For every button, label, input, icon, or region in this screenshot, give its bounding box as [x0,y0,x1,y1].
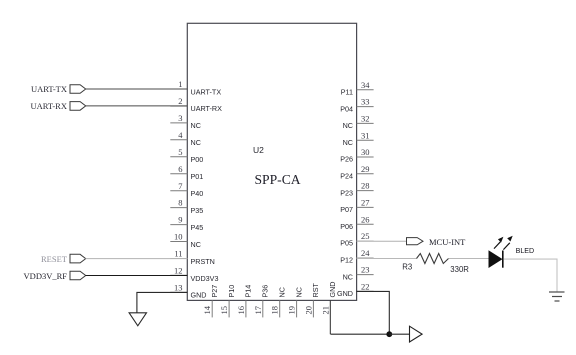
svg-text:P45: P45 [191,223,204,232]
svg-text:NC: NC [343,138,353,147]
pin 11 (PRSTN) [170,249,215,266]
svg-text:34: 34 [361,80,370,90]
pin 10 (NC) [170,232,201,249]
svg-text:P06: P06 [340,222,353,231]
svg-text:UART-TX: UART-TX [31,84,67,94]
svg-text:RESET: RESET [41,254,68,264]
svg-text:28: 28 [361,181,370,191]
svg-text:27: 27 [361,198,370,208]
svg-text:P07: P07 [340,205,353,214]
pin 20 (RST) [303,283,320,318]
svg-text:R3: R3 [402,262,412,271]
svg-text:P10: P10 [227,285,236,298]
pin 23 (NC) [343,265,374,282]
pin 8 (P35) [170,198,203,215]
svg-text:13: 13 [174,283,183,293]
pin 4 (NC) [170,130,201,147]
pin 28 (P23) [340,181,373,198]
pin 13 (GND) [170,283,206,300]
pin 26 (P06) [340,214,373,231]
resistor R3 [417,254,449,264]
wire GND net (pin 13 to ground) [137,292,187,312]
svg-text:7: 7 [178,181,182,191]
port MCU-INT [407,237,467,247]
svg-text:23: 23 [361,265,370,275]
svg-text:1: 1 [178,79,182,89]
svg-text:26: 26 [361,214,370,224]
svg-text:UART-RX: UART-RX [191,104,223,113]
LED emission arrow 1 [494,237,503,249]
svg-text:P27: P27 [210,285,219,298]
wire UART-TX net [86,88,188,90]
svg-text:GND: GND [328,282,337,298]
pin 17 (P36) [253,285,270,318]
svg-text:P04: P04 [340,104,353,113]
svg-text:P12: P12 [340,256,353,265]
LED cathode bar [502,251,504,268]
svg-text:18: 18 [270,306,280,315]
pin 14 (P27) [202,285,219,318]
pin 15 (P10) [219,285,236,318]
svg-text:VDD3V3: VDD3V3 [191,274,219,283]
svg-text:29: 29 [361,164,370,174]
pin 1 (UART-TX) [170,79,221,96]
svg-text:5: 5 [178,147,182,157]
pin 2 (UART-RX) [170,96,222,113]
svg-text:NC: NC [191,138,201,147]
svg-text:16: 16 [236,306,246,315]
pin 30 (P26) [340,147,373,164]
pin 16 (P14) [236,285,253,318]
svg-text:VDD3V_RF: VDD3V_RF [24,271,68,281]
svg-text:P00: P00 [191,155,204,164]
ground (earth symbol) [549,292,565,301]
pin 22 (GND) [337,282,374,299]
svg-text:17: 17 [253,306,263,315]
svg-text:P14: P14 [244,285,253,298]
svg-text:15: 15 [219,306,229,315]
svg-text:10: 10 [174,232,183,242]
svg-text:P40: P40 [191,189,204,198]
wire LED cathode to ground [504,259,557,292]
svg-text:24: 24 [361,248,370,258]
pin 31 (NC) [343,130,374,147]
svg-text:9: 9 [178,215,182,225]
port VDD3V_RF [24,271,86,281]
pin 6 (P01) [170,164,203,181]
pin 21 (GND) [320,282,337,335]
pin 3 (NC) [170,113,201,130]
svg-text:6: 6 [178,164,182,174]
svg-text:P11: P11 [341,88,353,97]
pin 7 (P40) [170,181,203,198]
svg-text:UART-TX: UART-TX [191,87,222,96]
IC U2 body (SPP-CA module outline) [187,23,356,300]
svg-text:32: 32 [361,114,370,124]
svg-text:8: 8 [178,198,182,208]
svg-text:MCU-INT: MCU-INT [429,237,466,247]
svg-text:NC: NC [191,121,201,130]
wire VDD3V_RF net [86,275,188,277]
pin 25 (P05) [340,231,373,248]
pin 33 (P04) [340,97,373,114]
wire UART-RX net [86,105,188,107]
svg-text:P35: P35 [191,206,204,215]
svg-text:31: 31 [361,130,370,140]
wire junction to off-page triangle [389,333,409,335]
svg-text:3: 3 [178,113,182,123]
wire GND pin 21 down and right [331,333,390,335]
wire P05 to MCU-INT port [357,240,407,242]
pin 9 (P45) [170,215,203,232]
svg-text:33: 33 [361,97,370,107]
wire R3 to LED anode [449,258,490,260]
svg-text:UART-RX: UART-RX [31,101,68,111]
svg-text:25: 25 [361,231,370,241]
svg-text:P24: P24 [340,172,353,181]
pin 29 (P24) [340,164,373,181]
svg-text:12: 12 [174,266,183,276]
svg-text:P36: P36 [261,285,270,298]
pin 18 (NC) [270,287,287,317]
svg-text:NC: NC [191,240,201,249]
pin 24 (P12) [340,248,373,265]
svg-text:2: 2 [178,96,182,106]
svg-text:U2: U2 [253,145,264,155]
svg-text:11: 11 [174,249,182,259]
svg-text:GND: GND [337,289,353,298]
svg-text:NC: NC [294,287,303,297]
svg-text:21: 21 [320,306,330,315]
svg-text:GND: GND [191,291,207,300]
LED BLED diode triangle [489,251,502,267]
svg-text:SPP-CA: SPP-CA [255,172,301,187]
wire RESET net [86,258,188,260]
port UART-RX [31,101,86,111]
svg-text:BLED: BLED [516,247,535,255]
svg-text:22: 22 [361,282,370,292]
svg-text:P26: P26 [340,155,353,164]
pin 19 (NC) [287,287,304,317]
svg-text:NC: NC [343,272,353,281]
svg-text:14: 14 [202,305,212,314]
svg-text:20: 20 [303,306,313,315]
pin 32 (NC) [343,114,374,131]
pin 5 (P00) [170,147,203,164]
svg-text:P05: P05 [340,239,353,248]
wire P12 to R3 [357,258,417,260]
ground (signal ground triangle) [129,313,146,326]
svg-text:P01: P01 [191,172,204,181]
svg-text:RST: RST [311,283,320,298]
pin 34 (P11) [341,80,374,97]
junction dot [386,331,392,337]
off-page connector triangle [410,326,423,342]
svg-text:330R: 330R [450,265,469,274]
LED emission arrow 2 [503,236,512,250]
port UART-TX [31,84,86,94]
svg-text:30: 30 [361,147,370,157]
pin 12 (VDD3V3) [170,266,218,283]
svg-text:P23: P23 [340,188,353,197]
svg-text:NC: NC [278,287,287,297]
svg-text:19: 19 [287,306,297,315]
svg-text:PRSTN: PRSTN [191,257,215,266]
svg-text:NC: NC [343,121,353,130]
pin 27 (P07) [340,198,373,215]
wire GND pin 22 right and down [357,291,390,334]
port RESET [41,254,86,264]
